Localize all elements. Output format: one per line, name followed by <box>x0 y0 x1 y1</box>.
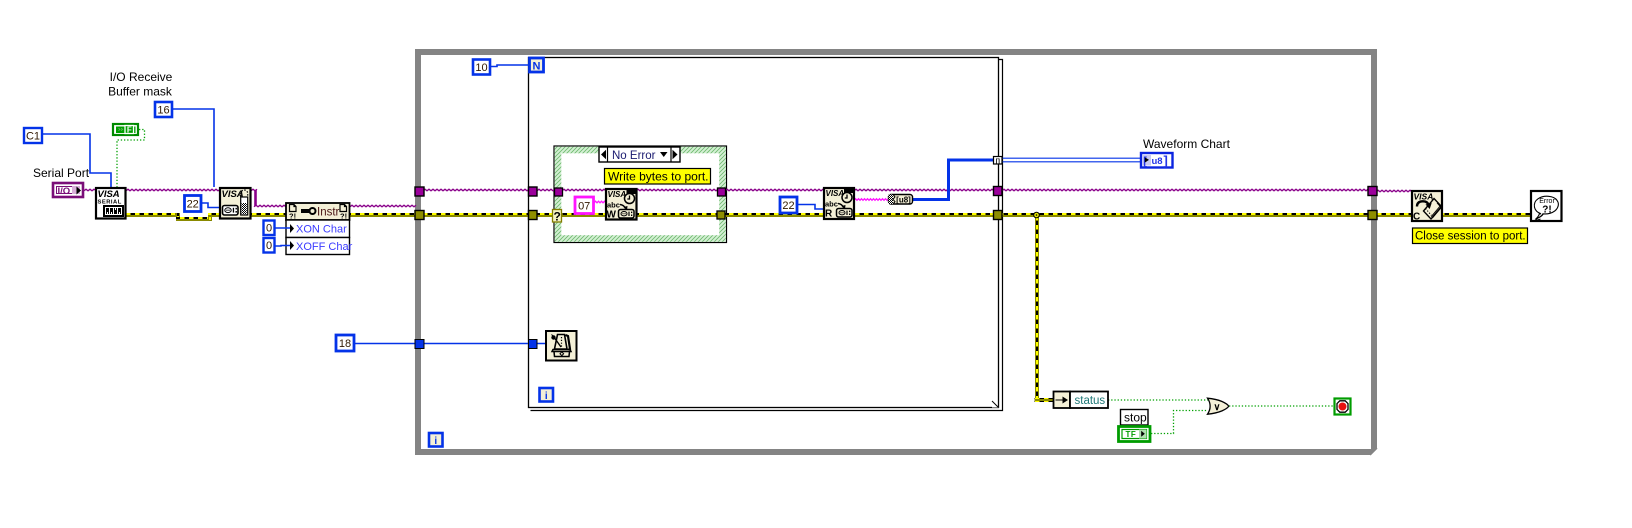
for loop iteration terminal i <box>540 388 554 402</box>
svg-text:22: 22 <box>187 199 199 211</box>
wire: blue 18 to wait ms <box>355 343 545 345</box>
tunnel: purple while loop left <box>415 187 424 196</box>
wire: error VISA config to property node <box>251 213 287 217</box>
wire: blue 0 to XON Char <box>275 227 291 229</box>
svg-text:Waveform Chart: Waveform Chart <box>1143 137 1231 151</box>
svg-text:i: i <box>545 391 548 402</box>
wire: error case tunnel to VISA read <box>725 213 824 217</box>
for loop <box>529 58 1003 411</box>
VISA read icon <box>824 188 854 220</box>
wire: green dotted stop TF to Or gate <box>1151 411 1208 434</box>
svg-text:SERIAL: SERIAL <box>98 200 122 206</box>
VISA configure serial port icon <box>96 188 126 219</box>
while loop <box>418 52 1377 455</box>
svg-text:abc: abc <box>607 201 620 210</box>
constant 16 <box>155 102 172 117</box>
svg-text:10: 10 <box>475 62 487 74</box>
tunnel: purple while loop right <box>1368 187 1377 196</box>
case structure <box>554 146 727 243</box>
svg-text:abc: abc <box>825 200 838 209</box>
svg-text:u8: u8 <box>1152 156 1163 167</box>
wire: blue 22 to VISA config <box>202 203 219 208</box>
wire: blue byte array to for loop tunnel <box>913 160 994 200</box>
svg-text:Buffer mask: Buffer mask <box>108 85 173 99</box>
wire: purple VISA resource I/O control to VISA serial <box>84 189 95 191</box>
string to byte array icon <box>889 195 913 205</box>
wire: error branch down to unbundle <box>1035 217 1054 402</box>
wire: error for border to while border right <box>1002 213 1369 217</box>
tunnel: error for loop right <box>994 211 1003 220</box>
wire: purple property node to while loop border <box>350 205 416 207</box>
wire: pink string 07 to VISA write <box>594 201 606 203</box>
wire: error property node to while border <box>350 213 416 217</box>
wire: blue 22 to VISA read <box>798 205 823 210</box>
unbundle by name status <box>1054 392 1109 409</box>
tunnel: blue while loop left <box>415 340 424 349</box>
for loop count terminal N <box>530 58 544 73</box>
svg-text:0: 0 <box>266 223 272 235</box>
wire: purple VISA serial to VISA config <box>126 189 219 191</box>
wire: blue 10 to N terminal <box>490 65 529 67</box>
tunnel: error for loop left <box>529 211 538 220</box>
wait ms metronome icon <box>546 331 577 361</box>
svg-text:?!: ?! <box>289 212 296 221</box>
waveform chart indicator <box>1141 153 1173 168</box>
wire: error VISA write to case tunnel <box>636 213 717 217</box>
svg-text:]: ] <box>1164 153 1168 168</box>
VISA write icon <box>606 189 637 221</box>
case selector label No Error <box>599 147 680 162</box>
VISA close icon <box>1412 191 1442 223</box>
svg-text:R: R <box>825 209 833 220</box>
wire: error step down segment under 22 <box>176 213 220 221</box>
wire: purple VISA config to property node <box>251 189 286 207</box>
boolean false constant <box>113 124 138 135</box>
I/O control Serial Port <box>53 183 83 197</box>
property node row XON Char <box>286 220 350 238</box>
wire: pink string VISA read to byte array <box>854 199 888 201</box>
wire: error VISA read to for border <box>854 213 994 217</box>
wire: error VISA close to error dialog <box>1442 213 1531 217</box>
svg-text:?!: ?! <box>1542 205 1551 216</box>
svg-text:C1: C1 <box>26 131 40 143</box>
constant 18 <box>336 335 354 351</box>
wire: purple case to VISA read <box>725 189 824 191</box>
wire: purple case tunnel to VISA write <box>562 189 606 191</box>
wire: green dotted Or gate to stop terminal <box>1229 405 1334 407</box>
svg-text:status: status <box>1075 395 1106 407</box>
svg-text:W: W <box>607 210 617 221</box>
svg-text:∨: ∨ <box>1214 402 1221 413</box>
tunnel: error while loop left <box>415 211 424 220</box>
wire: green dotted status to Or gate <box>1108 399 1208 401</box>
wire: purple while border to for border <box>423 189 529 191</box>
wire: error case selector to VISA write <box>562 213 606 217</box>
svg-text:VISA: VISA <box>98 189 120 200</box>
svg-text:0: 0 <box>266 240 272 252</box>
stop button terminal <box>1335 399 1351 415</box>
tunnel: error while loop right <box>1368 211 1377 220</box>
wire: blue 0 to XOFF Char <box>275 245 291 248</box>
svg-text:stop: stop <box>1124 411 1147 425</box>
label Close session to port <box>1413 228 1528 244</box>
property node Instr <box>286 203 350 221</box>
svg-text:?!: ?! <box>340 212 347 221</box>
svg-text:XOFF Char: XOFF Char <box>296 241 353 253</box>
label Write bytes to port <box>605 169 711 185</box>
Or gate <box>1208 398 1229 414</box>
svg-text:[u8]: [u8] <box>896 195 911 204</box>
wire: purple VISA write to case right tunnel <box>636 189 718 191</box>
wire: purple VISA read to for loop right border <box>854 189 994 191</box>
svg-text:07: 07 <box>578 201 590 213</box>
wire: error while border to for border <box>423 213 529 217</box>
while loop iteration terminal i <box>429 433 443 447</box>
tunnel: blue for loop left <box>529 340 538 349</box>
wire: blue C1 to VISA serial <box>42 134 111 187</box>
svg-text:I/O Receive: I/O Receive <box>110 70 173 84</box>
svg-text:F: F <box>127 126 132 135</box>
wire: blue 16 to VISA config <box>173 109 214 187</box>
wire: purple while border to VISA close <box>1376 190 1412 192</box>
svg-text:18: 18 <box>339 338 351 350</box>
svg-text:C: C <box>1413 212 1420 223</box>
boolean control stop TF <box>1119 427 1151 442</box>
label I/O Receive Buffer mask <box>108 70 173 99</box>
constant 22 <box>185 196 202 212</box>
constant C1 <box>24 128 42 143</box>
junction on error wire <box>1034 212 1040 218</box>
svg-text:VISA: VISA <box>608 190 627 199</box>
tunnel: case selector terminal <box>553 210 562 224</box>
svg-text:No Error: No Error <box>612 150 656 162</box>
tunnel: purple for loop left <box>529 187 538 196</box>
svg-text:XON Char: XON Char <box>296 224 347 236</box>
svg-text:I/O: I/O <box>58 186 71 197</box>
property node row XOFF Char <box>286 238 353 255</box>
label stop <box>1121 410 1149 426</box>
svg-text:Instr: Instr <box>317 207 340 219</box>
svg-text:?: ? <box>554 210 561 224</box>
svg-text:22: 22 <box>782 200 794 212</box>
VISA set buffer size icon <box>220 188 251 219</box>
constant 0 XON <box>264 221 275 236</box>
wire: error cluster VISA serial to step <box>126 213 180 217</box>
wire: green dotted TF constant to VISA serial <box>117 130 145 188</box>
svg-text:i: i <box>434 436 437 447</box>
constant 10 <box>473 60 490 75</box>
svg-text:Serial Port: Serial Port <box>33 166 90 180</box>
tunnel: purple for loop right <box>994 187 1003 196</box>
svg-text:[]: [] <box>996 158 1000 165</box>
svg-text:N: N <box>533 61 541 73</box>
constant 0 XOFF <box>264 238 275 253</box>
svg-text:TF: TF <box>1126 430 1137 439</box>
tunnel: array indexing for loop right <box>994 157 1003 165</box>
svg-text:Close session to port.: Close session to port. <box>1415 231 1526 243</box>
tunnel: purple case right <box>718 188 726 196</box>
wire: purple for border to while border right <box>1002 189 1368 191</box>
wire: error for border to case selector <box>537 213 553 217</box>
wire: blue array double line to waveform chart <box>1002 158 1140 162</box>
svg-text:16: 16 <box>157 105 169 117</box>
tunnel: error case right <box>717 211 725 219</box>
constant 07 <box>575 197 594 214</box>
svg-text:VISA: VISA <box>1414 192 1434 202</box>
wire: purple for border to case border <box>537 189 555 191</box>
simple error handler icon <box>1531 191 1562 222</box>
constant 22 read count <box>780 197 797 213</box>
wire: error while border to VISA close <box>1376 213 1412 217</box>
svg-text:Write bytes to port.: Write bytes to port. <box>608 170 708 184</box>
tunnel: purple case left <box>555 188 563 196</box>
